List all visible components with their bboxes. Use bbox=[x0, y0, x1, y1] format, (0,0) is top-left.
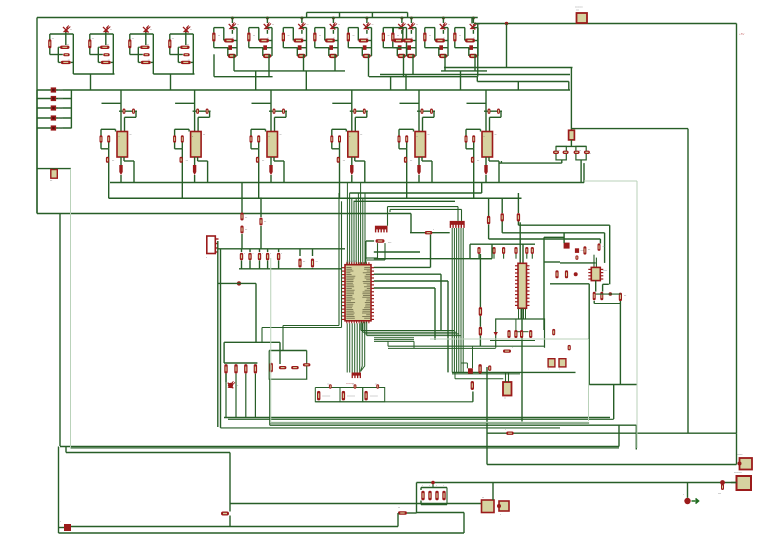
wire bbox=[388, 345, 545, 347]
resistor R65 bbox=[478, 364, 481, 374]
connector pad bbox=[64, 524, 71, 531]
svg-text:xx: xx bbox=[187, 44, 189, 46]
capacitor C22 bbox=[502, 247, 505, 254]
diode D72 bbox=[506, 432, 514, 435]
wire bbox=[374, 251, 420, 253]
svg-text:x: x bbox=[422, 485, 423, 487]
wire bbox=[59, 527, 65, 529]
resistor R81 bbox=[398, 511, 407, 514]
resistor R44 bbox=[565, 270, 568, 278]
wire bbox=[560, 262, 596, 264]
wire bbox=[71, 447, 620, 449]
svg-text:xx: xx bbox=[443, 38, 445, 40]
wire bbox=[441, 70, 487, 72]
wire bbox=[543, 237, 545, 330]
svg-text:xx: xx bbox=[267, 38, 269, 40]
wire bbox=[269, 350, 307, 352]
svg-text:xx: xx bbox=[338, 24, 340, 26]
svg-text:xxxxxxxx: xxxxxxxx bbox=[322, 396, 330, 398]
wire bbox=[70, 90, 72, 128]
wire bus y482 bbox=[417, 482, 737, 484]
svg-text:xxxxxxxx: xxxxxxxx bbox=[370, 396, 378, 398]
wire bbox=[377, 243, 379, 258]
svg-text:xx: xx bbox=[367, 38, 369, 40]
frame bbox=[270, 258, 272, 423]
wire bbox=[374, 287, 435, 289]
wire bbox=[593, 255, 595, 268]
resistor R21 bbox=[240, 226, 243, 234]
wire bbox=[561, 160, 563, 163]
svg-text:x: x bbox=[436, 485, 437, 487]
wire bbox=[444, 67, 573, 69]
svg-text:xx: xx bbox=[92, 38, 94, 40]
wire bbox=[613, 385, 615, 420]
svg-text:xx: xx bbox=[280, 134, 282, 136]
diode D40 bbox=[410, 232, 450, 234]
svg-text:xx: xx bbox=[203, 134, 205, 136]
wire bbox=[230, 503, 482, 505]
svg-text:xx: xx bbox=[110, 29, 112, 31]
wire bus y417 bbox=[224, 417, 610, 419]
module X5 bbox=[499, 501, 509, 511]
wire bus y419 bbox=[228, 418, 614, 420]
resistor R30 bbox=[488, 198, 490, 216]
supply component J2 bbox=[37, 98, 71, 100]
box K1 bbox=[269, 351, 307, 380]
wire left rail bbox=[36, 18, 38, 214]
wire bbox=[486, 367, 488, 465]
wire bus y197 bbox=[109, 197, 522, 199]
wire bbox=[374, 280, 448, 282]
wire bbox=[490, 340, 535, 342]
resistor R42 bbox=[598, 243, 601, 251]
svg-text:xx: xx bbox=[130, 134, 132, 136]
wire bbox=[506, 24, 508, 68]
resistor R67 bbox=[503, 350, 511, 353]
svg-text:xx: xx bbox=[495, 134, 497, 136]
wire bbox=[461, 362, 467, 364]
frame bbox=[430, 338, 589, 340]
wire bus y423 bbox=[270, 422, 589, 424]
connector SV1 bbox=[207, 236, 216, 254]
wire bbox=[387, 341, 389, 346]
wire bbox=[476, 77, 478, 82]
junction bbox=[609, 292, 613, 296]
svg-text:xx: xx bbox=[558, 150, 560, 152]
svg-text:x: x bbox=[512, 347, 513, 349]
resistor R66 bbox=[471, 381, 474, 390]
connector ANT OUT bbox=[740, 458, 753, 470]
svg-text:xx: xx bbox=[288, 35, 290, 37]
wire bbox=[487, 464, 737, 466]
wire bbox=[338, 193, 340, 326]
wire MCU fan right bbox=[360, 322, 362, 331]
svg-text:xx: xx bbox=[67, 44, 69, 46]
diode box A bbox=[556, 146, 566, 160]
diode D53 bbox=[303, 363, 311, 366]
resistor R71 bbox=[514, 330, 517, 338]
svg-text:xx: xx bbox=[375, 384, 377, 386]
wire bbox=[595, 281, 597, 292]
svg-text:xx: xx bbox=[448, 24, 450, 26]
svg-text:xx: xx bbox=[504, 398, 506, 400]
capacitor C25 bbox=[531, 247, 534, 254]
wire bbox=[550, 283, 589, 285]
wire bbox=[397, 513, 399, 527]
svg-text:x: x bbox=[119, 136, 120, 138]
diode D33 bbox=[574, 151, 580, 154]
svg-text:xx: xx bbox=[327, 384, 329, 386]
svg-text:x: x bbox=[559, 369, 560, 371]
wire bbox=[218, 282, 256, 284]
svg-text:xx: xx bbox=[360, 134, 362, 136]
svg-text:x: x bbox=[253, 253, 254, 255]
wire bbox=[570, 68, 572, 131]
wire y248 bbox=[218, 248, 345, 250]
svg-text:x: x bbox=[443, 485, 444, 487]
wire bus y447 bbox=[60, 446, 619, 448]
wire bbox=[589, 384, 637, 386]
capacitor C21 bbox=[492, 247, 495, 254]
svg-text:xx: xx bbox=[232, 38, 234, 40]
svg-text:xxxx: xxxx bbox=[58, 127, 64, 130]
resistor R52 bbox=[619, 293, 622, 302]
wire bbox=[487, 432, 737, 434]
wire LCD bundle bbox=[451, 228, 453, 372]
svg-text:xx: xx bbox=[353, 35, 355, 37]
svg-text:x: x bbox=[244, 253, 245, 255]
LED cell D6 mid-group bbox=[266, 17, 269, 20]
wire bbox=[380, 74, 570, 76]
IC U2 bbox=[515, 263, 530, 308]
resistor R24 bbox=[312, 249, 314, 256]
wire bbox=[544, 261, 560, 263]
wire IC2 fan bbox=[518, 309, 520, 319]
svg-text:xx: xx bbox=[416, 24, 418, 26]
wire bus y372 bbox=[452, 371, 576, 373]
diode D52 bbox=[291, 366, 299, 369]
supply component J1 bbox=[51, 87, 56, 92]
svg-text:x: x bbox=[433, 229, 434, 231]
wire bbox=[388, 206, 459, 208]
svg-text:x: x bbox=[500, 514, 501, 516]
svg-text:xx: xx bbox=[429, 35, 431, 37]
wire bus y533 bbox=[59, 532, 465, 534]
svg-text:xx: xx bbox=[589, 153, 591, 155]
wire bbox=[233, 54, 235, 71]
switch S2 bbox=[468, 368, 473, 373]
wire bbox=[341, 201, 343, 327]
crystal Q1 bbox=[503, 382, 512, 396]
wire bbox=[405, 75, 407, 91]
diode D42 bbox=[366, 240, 374, 242]
wire bbox=[491, 244, 493, 259]
wire bbox=[220, 249, 222, 428]
wire bbox=[463, 513, 465, 534]
svg-text:xx: xx bbox=[172, 38, 174, 40]
capacitor C14 bbox=[278, 249, 280, 252]
svg-text:xx: xx bbox=[302, 38, 304, 40]
wire bbox=[305, 71, 307, 90]
wire bbox=[452, 373, 520, 375]
crystal Y1 bbox=[564, 243, 570, 249]
svg-text:xx: xx bbox=[473, 38, 475, 40]
svg-text:x: x bbox=[262, 253, 263, 255]
driver block U1 bbox=[120, 90, 122, 132]
crystal Y2 bbox=[37, 168, 71, 170]
wire bbox=[255, 71, 257, 90]
resistor R70 bbox=[507, 330, 510, 338]
driver block U4 bbox=[351, 90, 353, 132]
diode box B bbox=[576, 146, 586, 160]
wire bbox=[563, 233, 565, 243]
frame bbox=[636, 181, 638, 448]
svg-text:xxx: xxx bbox=[576, 10, 579, 12]
svg-text:xx: xx bbox=[388, 35, 390, 37]
wire bbox=[224, 341, 280, 343]
wire bbox=[492, 483, 494, 501]
junction bbox=[574, 272, 578, 276]
svg-text:xxxx: xxxx bbox=[58, 107, 64, 110]
svg-text:xx: xx bbox=[398, 507, 400, 509]
resistor R80 bbox=[221, 512, 229, 516]
wire MCU top bundle bbox=[346, 183, 348, 265]
DIP switch S1 bbox=[450, 221, 465, 228]
wire bbox=[58, 447, 60, 534]
wire bbox=[384, 243, 386, 260]
unit box U5 bbox=[315, 388, 340, 402]
svg-text:x: x bbox=[683, 494, 684, 496]
wire bbox=[505, 372, 507, 382]
driver block U2 bbox=[194, 90, 196, 132]
resistor R72 bbox=[520, 330, 523, 338]
wire bbox=[470, 243, 535, 245]
svg-text:x: x bbox=[505, 429, 506, 431]
connector ANT INPUT bbox=[737, 476, 752, 490]
wire bbox=[390, 208, 462, 210]
LED cell D8 mid-group bbox=[332, 17, 335, 20]
frame bbox=[584, 180, 637, 182]
battery G1 bbox=[577, 13, 588, 23]
wire bbox=[489, 238, 601, 240]
svg-text:xxx: xxx bbox=[718, 493, 721, 495]
resistor R73 bbox=[529, 330, 532, 338]
LED cell D13 mid-group bbox=[472, 17, 475, 20]
resistor R31 bbox=[501, 198, 503, 213]
wire bbox=[374, 266, 431, 268]
LED cell D2 left-group bbox=[89, 34, 91, 55]
svg-text:xx: xx bbox=[253, 35, 255, 37]
resistor R23 bbox=[299, 249, 301, 256]
wire bbox=[517, 82, 519, 91]
junction bbox=[431, 481, 435, 485]
wire bbox=[588, 284, 590, 385]
wire right rail bbox=[736, 24, 738, 434]
diode D41 bbox=[575, 248, 579, 253]
svg-text:x: x bbox=[270, 253, 271, 255]
LED cell D4 left-group bbox=[169, 34, 171, 55]
driver block U3 bbox=[270, 90, 272, 132]
wire bbox=[374, 273, 441, 275]
wire bus y201 bbox=[354, 200, 456, 202]
wire bbox=[596, 293, 621, 295]
wire battery net bbox=[474, 23, 737, 25]
junction bbox=[505, 22, 508, 25]
wire bbox=[460, 71, 462, 90]
svg-text:x: x bbox=[281, 253, 282, 255]
supply component J4 bbox=[37, 117, 71, 119]
capacitor C10 bbox=[241, 249, 243, 252]
wire bbox=[36, 90, 38, 214]
diode D34 bbox=[584, 151, 590, 154]
svg-text:x: x bbox=[429, 485, 430, 487]
IC U3 bbox=[588, 267, 603, 280]
svg-text:xx: xx bbox=[397, 35, 399, 37]
resistor R64 bbox=[270, 363, 273, 373]
driver block U6 bbox=[485, 90, 487, 132]
wire bbox=[407, 512, 417, 514]
wire upper bus bbox=[307, 11, 408, 13]
svg-text:xx: xx bbox=[459, 35, 461, 37]
wire bbox=[477, 24, 479, 77]
resistor R32 bbox=[517, 193, 519, 213]
capacitor C13 bbox=[267, 249, 269, 252]
LED cell D5 mid-group bbox=[231, 17, 234, 20]
svg-text:xx: xx bbox=[333, 38, 335, 40]
wire bbox=[571, 128, 688, 130]
LED D70 bbox=[684, 498, 690, 504]
wire bbox=[153, 73, 194, 75]
svg-text:x: x bbox=[528, 267, 529, 269]
diode D51 bbox=[279, 366, 287, 369]
wire bbox=[635, 425, 637, 449]
wire bbox=[369, 76, 477, 78]
wire bbox=[502, 232, 604, 234]
wire bbox=[570, 140, 572, 147]
LED cell D11 mid-group bbox=[410, 17, 413, 20]
wire top bus bbox=[37, 17, 478, 19]
LED D50 bbox=[228, 383, 233, 388]
header SV3 bbox=[375, 226, 388, 233]
wire bus y428 bbox=[221, 427, 561, 429]
wire bbox=[229, 453, 231, 504]
resistor R50 bbox=[593, 292, 596, 301]
wire bbox=[499, 162, 501, 164]
wire bbox=[59, 214, 61, 447]
capacitor C20 bbox=[477, 247, 480, 254]
svg-text:xx: xx bbox=[237, 24, 239, 26]
resistor R43 bbox=[555, 270, 558, 278]
LED cell D7 mid-group bbox=[300, 17, 303, 20]
ISP connector SV2 bbox=[352, 373, 361, 379]
filter module X4 bbox=[482, 500, 495, 513]
svg-text:xx: xx bbox=[352, 384, 354, 386]
svg-text:xx: xx bbox=[150, 29, 152, 31]
capacitor C41 bbox=[568, 345, 571, 351]
svg-text:x: x bbox=[349, 136, 350, 138]
svg-text:xx: xx bbox=[218, 35, 220, 37]
wire bbox=[412, 54, 414, 74]
svg-text:xx: xx bbox=[147, 44, 149, 46]
diode D32 bbox=[563, 151, 569, 154]
svg-text:xxxx: xxxx bbox=[58, 117, 64, 120]
wire bbox=[388, 347, 496, 349]
svg-text:xxxxxxxx: xxxxxxxx bbox=[347, 396, 355, 398]
frame bbox=[588, 339, 590, 421]
wire bbox=[269, 379, 271, 425]
wire bbox=[239, 268, 342, 270]
crystal Y3 bbox=[569, 130, 575, 140]
frame bbox=[70, 169, 72, 448]
LED cell D10 mid-group bbox=[400, 17, 403, 20]
MCU U10 bbox=[342, 265, 374, 321]
wire bbox=[213, 54, 215, 76]
wire bus y182 bbox=[110, 182, 584, 184]
unit box U6 bbox=[340, 388, 363, 402]
wire bbox=[583, 163, 585, 182]
wire bbox=[454, 372, 456, 378]
svg-text:xx: xx bbox=[579, 150, 581, 152]
svg-text:xx: xx bbox=[319, 35, 321, 37]
wire bus y425 bbox=[270, 424, 637, 426]
diode D60 bbox=[494, 332, 498, 336]
svg-text:xxxxxxxx: xxxxxxxx bbox=[346, 260, 356, 263]
wire MCU fan left bbox=[283, 325, 339, 327]
wire bus y213 bbox=[37, 213, 411, 215]
capacitor C40 bbox=[488, 365, 491, 371]
supply component J5 bbox=[37, 127, 71, 129]
svg-text:xx: xx bbox=[190, 29, 192, 31]
wire bbox=[521, 308, 523, 421]
wire main bus y90 bbox=[37, 89, 570, 91]
svg-text:x: x bbox=[484, 136, 485, 138]
wire rail x688 bbox=[687, 129, 689, 433]
wire bbox=[603, 283, 609, 285]
wire bbox=[580, 160, 582, 183]
wire bbox=[518, 224, 609, 226]
wire bbox=[593, 301, 595, 304]
wire bbox=[390, 77, 392, 90]
wire bbox=[229, 516, 231, 527]
wire bbox=[217, 241, 219, 427]
wire bbox=[619, 301, 621, 385]
resistor R51 bbox=[600, 292, 603, 301]
capacitor C23 bbox=[514, 247, 517, 254]
wire MCU right steps bbox=[374, 337, 414, 339]
resistor R20 bbox=[241, 183, 243, 213]
svg-text:xxxxx: xxxxx bbox=[737, 454, 743, 456]
svg-text:x: x bbox=[269, 136, 270, 138]
wire bbox=[515, 319, 517, 332]
svg-text:xx: xx bbox=[272, 24, 274, 26]
svg-text:xxxxxxx: xxxxxxx bbox=[575, 7, 584, 9]
svg-text:xxxxxxx: xxxxxxx bbox=[734, 472, 743, 474]
wire box bbox=[496, 319, 545, 348]
svg-text:xx: xx bbox=[70, 29, 72, 31]
wire bbox=[416, 483, 418, 513]
junction bbox=[237, 281, 241, 285]
capacitor C12 bbox=[259, 249, 261, 252]
svg-text:x: x bbox=[417, 136, 418, 138]
wire comb feeds bbox=[457, 207, 459, 221]
tan module X3 bbox=[559, 359, 566, 367]
capacitor C24 bbox=[525, 247, 528, 254]
svg-text:xx: xx bbox=[428, 134, 430, 136]
svg-text:xx: xx bbox=[372, 24, 374, 26]
wire bbox=[519, 222, 521, 263]
tan module X2 bbox=[548, 359, 555, 367]
wire bus y526 bbox=[71, 526, 398, 528]
